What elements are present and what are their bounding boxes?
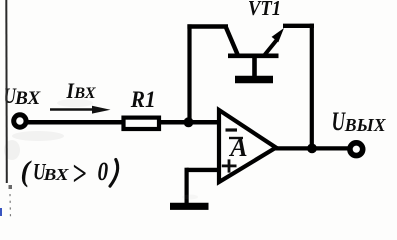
svg-text:VT1: VT1	[248, 0, 281, 20]
svg-text:A: A	[228, 133, 247, 162]
svg-text:ВЫХ: ВЫХ	[344, 115, 387, 135]
svg-text:ВХ: ВХ	[43, 165, 70, 184]
svg-text:>: >	[72, 154, 86, 193]
svg-text:0: 0	[98, 158, 109, 186]
svg-text:R1: R1	[130, 86, 156, 112]
svg-text:ВХ: ВХ	[14, 88, 41, 109]
